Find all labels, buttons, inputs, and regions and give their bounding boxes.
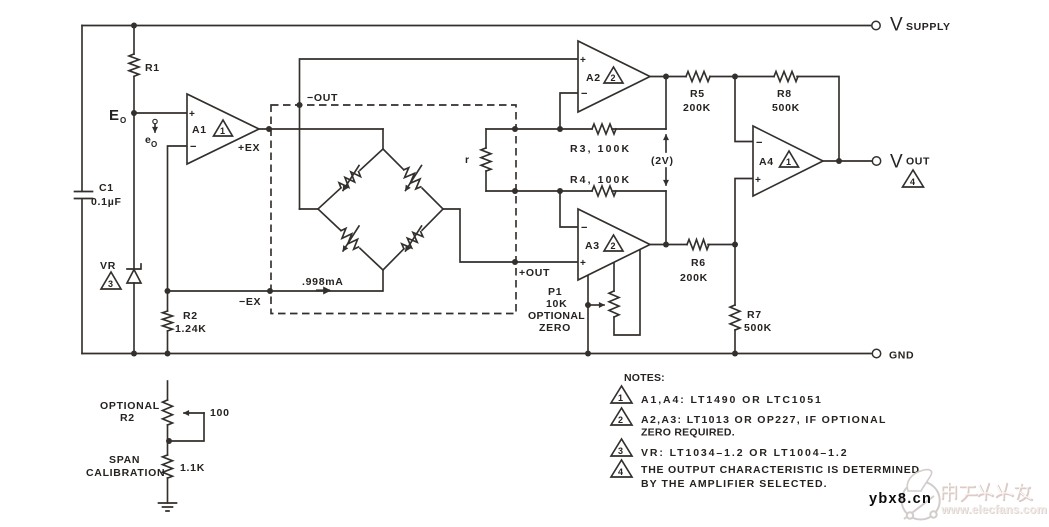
note 4 — [611, 460, 920, 490]
wire -OUT vertical and to A2 + — [300, 59, 579, 209]
svg-text:+: + — [580, 55, 587, 66]
svg-text:−: − — [190, 141, 197, 153]
svg-text:+: + — [755, 175, 762, 186]
svg-text:+OUT: +OUT — [519, 267, 550, 279]
op-amp A1 — [187, 94, 259, 164]
svg-text:1: 1 — [786, 157, 791, 167]
strain gauge bridge arm top-right — [383, 149, 443, 209]
wire bottom ground rail — [82, 353, 871, 355]
wire A4 output — [823, 160, 872, 162]
svg-text:−EX: −EX — [239, 296, 261, 308]
bridge dashed enclosure — [271, 105, 516, 314]
wire E0 to A1 + input — [134, 112, 187, 114]
svg-text:2: 2 — [618, 415, 623, 425]
wire bridge top stub — [382, 129, 384, 149]
wire A1 - input feedback — [168, 146, 188, 291]
svg-text:www.elecfans.com: www.elecfans.com — [940, 504, 1047, 516]
potentiometer OPTIONAL R2 — [100, 381, 230, 455]
node r top / R3 ports — [512, 126, 518, 132]
wire A4 - input — [735, 77, 753, 142]
svg-text:A2: A2 — [586, 72, 601, 84]
node -EX junction at R2 — [165, 288, 171, 294]
svg-text:1.1K: 1.1K — [180, 462, 205, 474]
note-1 flag of A1 — [214, 120, 233, 136]
svg-text:−OUT: −OUT — [307, 92, 338, 104]
note 3 — [611, 439, 848, 459]
svg-text:ZERO: ZERO — [539, 322, 571, 334]
terminal V SUPPLY — [872, 15, 951, 36]
wire A3 - input to R4 node — [560, 191, 578, 227]
resistor R5 200K — [683, 72, 711, 115]
svg-text:E: E — [109, 107, 119, 124]
strain gauge bridge arm top-left — [318, 149, 383, 209]
wire A2 output down to R3 — [665, 77, 667, 130]
svg-text:0.1µF: 0.1µF — [91, 196, 122, 208]
svg-text:R5: R5 — [690, 88, 705, 100]
node +EX port dot — [266, 126, 272, 132]
svg-text:A3: A3 — [585, 240, 600, 252]
svg-text:r: r — [465, 154, 470, 166]
wire A2 output line with R5 R8 — [650, 77, 839, 162]
svg-text:1: 1 — [618, 393, 623, 403]
wire bridge right corner to +OUT to A3 + — [443, 209, 578, 262]
svg-text:500K: 500K — [744, 322, 772, 334]
strain gauge bridge arm bottom-left — [318, 209, 383, 270]
wire R4 line (bottom bridge output) — [486, 190, 666, 192]
svg-text:200K: 200K — [680, 272, 708, 284]
svg-text:−: − — [581, 222, 588, 234]
svg-text:V: V — [890, 152, 903, 173]
svg-text:+: + — [189, 109, 196, 120]
wire bridge bottom stub — [382, 270, 384, 291]
svg-text:+EX: +EX — [238, 142, 260, 154]
wire A3 output line with R6 — [650, 244, 735, 246]
watermark logo circle — [902, 470, 940, 520]
resistor R1 — [129, 26, 160, 114]
svg-text:A2,A3: LT1013 OR OP227, IF OPT: A2,A3: LT1013 OR OP227, IF OPTIONAL — [641, 414, 887, 426]
annotation (2V) measure arrows — [651, 135, 674, 185]
op-amp A2 — [578, 41, 650, 112]
svg-text:2: 2 — [611, 73, 616, 83]
svg-text:ybx8.cn: ybx8.cn — [869, 491, 932, 507]
terminal V OUT — [872, 152, 930, 173]
svg-text:THE OUTPUT CHARACTERISTIC IS D: THE OUTPUT CHARACTERISTIC IS DETERMINED — [641, 464, 920, 476]
node E0 — [109, 23, 137, 126]
svg-text:1.24K: 1.24K — [175, 323, 207, 335]
resistor R8 500K — [772, 72, 800, 115]
node +OUT port dot — [512, 259, 518, 265]
svg-text:O: O — [151, 140, 157, 149]
svg-text:−: − — [581, 88, 588, 100]
resistor R3 100K — [592, 124, 616, 134]
node bottom rail junctions left — [131, 351, 137, 357]
node -EX port dot — [267, 288, 273, 294]
op-amp A4 — [753, 126, 823, 196]
svg-text:C1: C1 — [99, 182, 114, 194]
svg-text:NOTES:: NOTES: — [624, 372, 665, 384]
svg-text:V: V — [890, 15, 903, 36]
svg-text:R6: R6 — [691, 257, 706, 269]
diode VR (zener reference) — [100, 113, 141, 354]
svg-text:R3, 100K: R3, 100K — [570, 143, 631, 155]
svg-text:GND: GND — [889, 350, 914, 362]
svg-text:1: 1 — [220, 126, 225, 136]
resistor R7 500K — [730, 245, 772, 354]
wire A1 output to bridge (+EX) — [259, 128, 383, 130]
note-3 flag of VR — [101, 272, 121, 289]
note 1 — [611, 386, 823, 406]
svg-text:10K: 10K — [546, 298, 567, 310]
node -OUT port dot — [297, 102, 303, 108]
resistor R4 100K — [592, 186, 616, 196]
svg-text:VR: VR — [100, 260, 116, 272]
resistor R6 200K — [680, 240, 709, 285]
resistor R2 1.24K — [163, 291, 207, 354]
watermark chinese characters — [943, 484, 1032, 501]
svg-text:VR: LT1034–1.2 OR LT1004–1.2: VR: LT1034–1.2 OR LT1004–1.2 — [641, 447, 848, 459]
node A2 out / R5 junctions — [663, 74, 669, 80]
svg-text:A1,A4: LT1490 OR LTC1051: A1,A4: LT1490 OR LTC1051 — [641, 394, 823, 406]
resistor r — [465, 129, 491, 191]
strain gauge bridge arm bottom-right — [383, 209, 443, 270]
svg-text:OPTIONAL: OPTIONAL — [100, 400, 160, 412]
svg-text:ZERO REQUIRED.: ZERO REQUIRED. — [641, 427, 735, 439]
svg-text:R7: R7 — [747, 309, 762, 321]
svg-text:+: + — [580, 258, 587, 269]
svg-text:100: 100 — [210, 407, 230, 419]
svg-text:A4: A4 — [759, 156, 774, 168]
wire left vertical (supply to gnd via C1) — [81, 26, 83, 192]
svg-text:O: O — [120, 116, 126, 125]
svg-text:P1: P1 — [548, 286, 562, 298]
capacitor C1 — [75, 182, 122, 208]
svg-text:(2V): (2V) — [651, 155, 674, 167]
wire A4 + input down to R6/R7 node — [735, 179, 753, 245]
wire A3 output up to R4 — [665, 191, 667, 245]
svg-text:4: 4 — [910, 177, 915, 187]
svg-text:3: 3 — [108, 279, 113, 289]
wire A2 - input to R3 node — [560, 93, 578, 129]
note-4 flag of V OUT — [903, 170, 924, 187]
note-2 flag of A2 — [604, 67, 623, 83]
wire .998mA arrow — [316, 289, 330, 291]
terminal GND — [872, 349, 914, 361]
svg-text:BY THE AMPLIFIER SELECTED.: BY THE AMPLIFIER SELECTED. — [641, 478, 828, 490]
potentiometer P1 10K optional zero — [528, 250, 640, 335]
node A3 out / R6 junctions — [663, 242, 669, 248]
svg-text:A1: A1 — [192, 124, 207, 136]
svg-text:200K: 200K — [683, 102, 711, 114]
svg-text:SPAN: SPAN — [109, 454, 140, 466]
svg-text:R2: R2 — [183, 310, 198, 322]
svg-text:CALIBRATION: CALIBRATION — [86, 467, 165, 479]
svg-text:R8: R8 — [777, 88, 792, 100]
svg-text:OUT: OUT — [906, 156, 930, 168]
note-1 flag of A4 — [780, 151, 799, 167]
node e0 annotation arrow — [145, 119, 157, 149]
svg-text:−: − — [756, 137, 763, 149]
svg-text:2: 2 — [611, 241, 616, 251]
svg-text:SUPPLY: SUPPLY — [906, 21, 951, 33]
wire -EX horizontal — [168, 290, 383, 292]
note-2 flag of A3 — [604, 235, 623, 251]
svg-text:3: 3 — [618, 446, 623, 456]
svg-text:4: 4 — [618, 467, 623, 477]
svg-text:R1: R1 — [145, 62, 160, 74]
svg-text:500K: 500K — [772, 102, 800, 114]
op-amp A3 — [578, 209, 650, 280]
ground symbol — [159, 503, 177, 511]
svg-text:OPTIONAL: OPTIONAL — [528, 310, 585, 322]
resistor 1.1K span calibration — [86, 454, 205, 503]
note 2 — [611, 408, 887, 439]
wire bridge left corner stub — [300, 208, 319, 210]
node r bottom / R4 ports — [512, 188, 518, 194]
wire R3 line (top bridge output) — [486, 128, 666, 130]
wire top supply rail — [82, 25, 872, 27]
svg-text:R4, 100K: R4, 100K — [570, 174, 631, 186]
svg-text:.998mA: .998mA — [302, 276, 344, 288]
svg-text:R2: R2 — [120, 412, 135, 424]
wire A3 V- pin to ground rail — [587, 276, 589, 354]
